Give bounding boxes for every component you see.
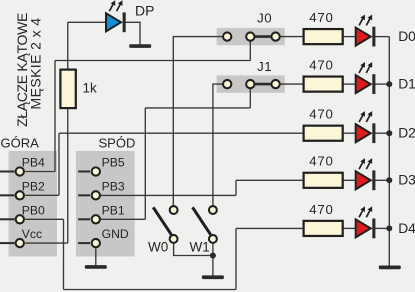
wire J1 middle stub [249,88,251,108]
wire PB2 riser [58,133,60,195]
wire D2 cathode out [375,132,390,134]
svg-text:470: 470 [309,202,333,217]
resistor 470 (D3) [304,173,343,188]
jumper J0 body [217,28,285,45]
svg-text:GÓRA: GÓRA [1,136,40,151]
wire PB1 row [101,218,146,220]
wire J1 left to W1 [213,84,223,206]
svg-text:PB5: PB5 [102,156,125,170]
switch W0 [148,206,178,254]
wire Vcc row [25,242,67,244]
wire 470 to D0 LED [343,36,356,38]
svg-text:PB0: PB0 [22,203,45,217]
svg-text:GND: GND [102,227,129,241]
wire J1 right [280,83,304,85]
wire 470 to D3 LED [343,179,356,181]
resistor 470 (D4) [304,221,343,236]
wire GND pin stub [95,248,97,265]
wire D3 step [235,180,237,195]
wire LED bus [388,37,390,266]
junction node D3 [386,177,392,183]
svg-text:W1: W1 [190,240,210,255]
svg-text:470: 470 [309,58,333,73]
jumper J1 [223,59,280,88]
junction node D2 [386,130,392,136]
svg-text:PB3: PB3 [102,179,125,193]
LED D1 [356,62,376,94]
svg-text:PB1: PB1 [102,203,125,217]
wire 470 to D2 LED [343,132,356,134]
wire J0 middle net [55,60,250,62]
pin PB0 [0,203,45,223]
wire to switches ground [212,256,214,276]
pin PB4 [0,156,45,176]
svg-text:SPÓD: SPÓD [99,136,136,151]
wire DP cathode to ground [125,22,140,44]
ground (switches) [202,275,224,279]
wire 1k bottom to Vcc [67,108,69,243]
LED D2 [356,111,376,143]
resistor 470 (D2) [304,126,343,141]
wire W0 bottom [174,243,213,256]
wire J1 middle run [145,107,250,109]
resistor 470 (D0) [304,29,343,44]
wire DP anode [68,21,106,23]
wire W1 bottom [212,243,214,256]
jumper J0 [223,10,280,40]
svg-text:D3: D3 [398,173,415,188]
svg-text:D1: D1 [398,77,415,92]
svg-text:DP: DP [135,3,154,19]
wire D4 row [236,227,304,229]
resistor R1 1k [60,70,75,109]
svg-text:470: 470 [309,10,333,25]
svg-text:1k: 1k [83,81,98,96]
ground (LED bus) [379,266,401,270]
wire 1k top [67,22,69,69]
LED DP [106,0,126,32]
LED D0 [356,14,376,46]
svg-text:Vcc: Vcc [22,227,42,241]
svg-text:J1: J1 [257,59,272,74]
connector block SPÓD [76,151,135,257]
svg-text:PB2: PB2 [22,179,45,193]
pin PB3 [78,179,125,199]
pin PB1 [78,203,125,223]
pin Vcc [0,227,42,247]
wire D0 cathode out [375,36,390,38]
wire PB2 row [25,194,59,196]
switch W1 [190,206,217,254]
junction node switches [210,253,216,259]
LED D4 [356,206,376,238]
pin PB5 [78,156,125,176]
svg-text:D4: D4 [398,221,415,236]
wire J0 left to W0 [173,37,223,206]
svg-text:D2: D2 [398,126,415,141]
wire PB4 row [25,171,55,173]
wire D2 row [59,132,304,134]
wire D3 cathode out [375,179,390,181]
wire D4 cathode out [375,227,390,229]
wire D4 riser [235,228,237,289]
wire D1 cathode out [375,83,390,85]
resistor 470 (D1) [304,77,343,92]
svg-text:J0: J0 [257,10,272,25]
pin PB2 [0,179,45,199]
wire 470 to D4 LED [343,227,356,229]
wire J0 middle stub [249,41,251,61]
LED D3 [356,158,376,190]
wire J1 middle riser [144,108,146,219]
svg-text:470: 470 [309,107,333,122]
wire 470 to D1 LED [343,83,356,85]
svg-text:D0: D0 [398,29,415,44]
wire bottom run [64,289,237,291]
junction node D4 [386,225,392,231]
svg-text:PB4: PB4 [22,156,45,170]
ground (GND pin) [85,265,107,269]
wire PB0 row [25,218,63,220]
junction node D1 [386,81,392,87]
svg-text:W0: W0 [148,240,168,255]
wire J0 right [280,36,304,38]
pin GND [78,227,129,247]
svg-text:470: 470 [309,154,333,169]
wire PB3 row [101,194,236,196]
wire PB4 riser [54,61,56,172]
wire PB0 drop [63,219,65,289]
wire D3 row [236,179,304,181]
connector block GÓRA [9,151,58,257]
jumper J1 body [217,75,285,92]
svg-text:MĘSKIE 2 x 4: MĘSKIE 2 x 4 [27,18,43,110]
ground (DP) [129,44,151,48]
